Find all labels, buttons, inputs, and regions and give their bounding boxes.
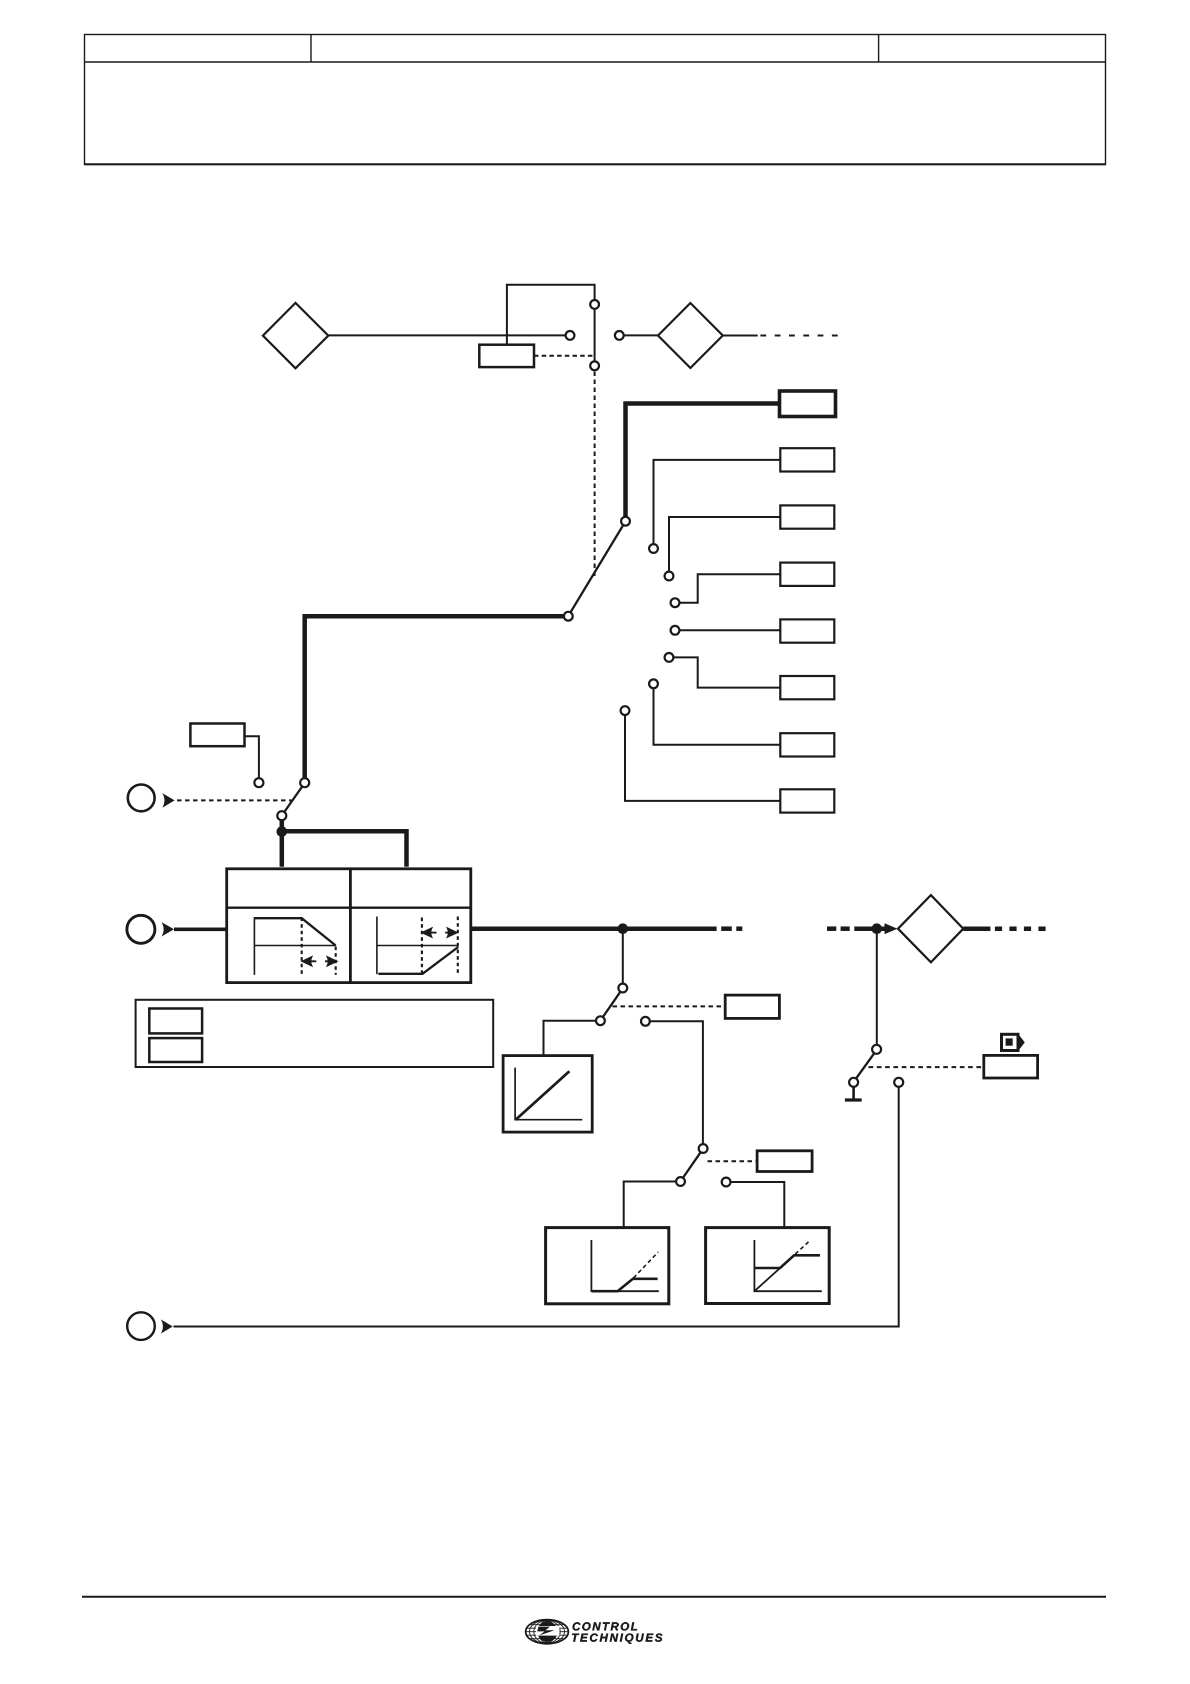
diamond D1 reference selector bbox=[263, 303, 328, 368]
parameter box P4 bbox=[757, 1151, 812, 1172]
accel graph dashed markers bbox=[422, 917, 458, 974]
dashed control line T1 to switch S2 blade bbox=[177, 799, 292, 801]
parameter box B2 bbox=[780, 448, 834, 471]
ramp box R2 dashed continuation bbox=[795, 1240, 810, 1254]
thick bus wire ramp block to junction J1 bbox=[471, 926, 717, 931]
terminal T3 bbox=[127, 1312, 155, 1340]
ramp block centre divider bbox=[349, 869, 352, 983]
wire contact c3 to box B3 bbox=[669, 517, 780, 572]
selector contact c8 bbox=[621, 706, 630, 715]
thick bus wire selector to left corner bbox=[305, 616, 564, 778]
arrowhead into D3 bbox=[885, 923, 898, 934]
wire contact c4 to box B4 bbox=[679, 574, 780, 603]
ramp box R2 thin diagonal bbox=[754, 1268, 780, 1291]
accel graph axes bbox=[377, 917, 458, 975]
switch S2 alternate contact bbox=[254, 778, 263, 787]
wire contact c8 to box B8 bbox=[625, 715, 780, 801]
logo text CONTROL TECHNIQUES bbox=[572, 1622, 662, 1644]
diamond D3 bbox=[898, 895, 963, 962]
junction J2 dot bbox=[872, 923, 883, 934]
switch S5 right contact bbox=[894, 1078, 903, 1087]
switch S4 blade bbox=[683, 1152, 701, 1178]
parameter box P5 bbox=[984, 1055, 1038, 1078]
switch S3 top contact bbox=[618, 984, 627, 993]
thick wire pivot to junction and into ramp block bbox=[282, 820, 407, 867]
selector contact c7 bbox=[649, 679, 658, 688]
wire J1 down to switch S3 bbox=[622, 929, 624, 984]
wire S3 left contact to linear box bbox=[544, 1021, 597, 1056]
ramp box R1 bbox=[546, 1228, 669, 1304]
switch S3 left contact bbox=[596, 1016, 605, 1025]
thick wire T2 into ramp block bbox=[174, 927, 227, 931]
selector contact c5 bbox=[671, 626, 680, 635]
switch S5 left contact bbox=[849, 1078, 858, 1087]
switch S4 top contact bbox=[699, 1144, 708, 1153]
linear law diagonal bbox=[516, 1071, 570, 1120]
parameter box P1 bbox=[479, 345, 534, 367]
footer rule bbox=[82, 1596, 1106, 1598]
accel graph curve bbox=[378, 947, 458, 974]
thick wire selector contact c1 to box B1 bbox=[626, 404, 780, 517]
selector pivot contact bbox=[564, 612, 573, 621]
decel graph curve bbox=[255, 918, 336, 945]
junction J1 dot bbox=[618, 923, 629, 934]
parameter box B5 bbox=[780, 619, 834, 642]
logo globe bbox=[526, 1620, 569, 1644]
wire contact c6 to box B6 bbox=[673, 657, 780, 687]
ramp box R1 dashed continuation bbox=[634, 1252, 659, 1278]
parameter box B4 bbox=[780, 563, 834, 586]
switch S5 blade bbox=[856, 1053, 874, 1078]
dashed link P1 to S1 bbox=[534, 355, 593, 357]
wire from D2 with dashed continuation bbox=[723, 335, 838, 337]
switch S5 top contact bbox=[872, 1045, 881, 1054]
switch S1 pole contact bbox=[566, 331, 575, 340]
wire contact c7 to box B7 bbox=[654, 688, 781, 745]
terminal T2 bbox=[127, 915, 155, 943]
wire J2 down to switch S5 bbox=[876, 929, 878, 1045]
switch S1 bottom contact bbox=[590, 361, 599, 370]
switch S2 pivot contact bbox=[277, 811, 286, 820]
selector blade to c1 bbox=[571, 525, 624, 612]
dashed link S4 to box P4 bbox=[708, 1160, 758, 1162]
selector contact c2 bbox=[649, 544, 658, 553]
wire contact c5 to box B5 bbox=[679, 629, 780, 631]
terminal T3 arrowhead bbox=[161, 1319, 173, 1333]
parameter box P3 bbox=[725, 995, 779, 1018]
switch S1 right contact bbox=[615, 331, 624, 340]
parameter box B8 bbox=[780, 789, 834, 812]
parameter box B7 bbox=[780, 733, 834, 756]
switch S3 blade bbox=[603, 992, 621, 1017]
wire D1 to switch S1 pole bbox=[328, 334, 565, 336]
parameter list outer box bbox=[136, 1000, 494, 1067]
wire S5 right contact down and left to terminal T3 bbox=[174, 1087, 899, 1327]
thick bus dashes after J1 bbox=[721, 926, 742, 931]
switch S4 left contact bbox=[676, 1177, 685, 1186]
wire contact c2 to box B2 bbox=[654, 460, 781, 544]
wire S1 to diamond D2 bbox=[624, 334, 658, 336]
decel graph axes bbox=[254, 917, 335, 975]
thick bus dashes left of junction J2 bbox=[827, 926, 850, 931]
selector contact c6 bbox=[665, 653, 674, 662]
thick wire from D3 and dashes bbox=[963, 926, 1048, 931]
selector contact c1 bbox=[621, 517, 630, 526]
ramp block header divider bbox=[227, 907, 471, 909]
ramp box R2 bbox=[706, 1228, 830, 1304]
parameter box B1 (bold) bbox=[780, 391, 836, 417]
ramp block outer box bbox=[227, 869, 471, 983]
ramp box R2 axes bbox=[754, 1240, 821, 1291]
linear law box bbox=[503, 1056, 592, 1133]
diamond D2 bbox=[658, 303, 723, 368]
selector contact c3 bbox=[665, 572, 674, 581]
destination icon above P5 bbox=[1002, 1034, 1025, 1050]
ramp box R1 curve bbox=[592, 1279, 658, 1291]
decel graph arrows bbox=[303, 957, 337, 965]
parameter box B3 bbox=[780, 505, 834, 528]
wire loop from box P1 over to contact C bbox=[507, 285, 595, 345]
selector contact c4 bbox=[671, 598, 680, 607]
dashed control line S1 down to selector blade bbox=[594, 372, 596, 578]
junction dot below S2 bbox=[277, 826, 288, 837]
parameter box B6 bbox=[780, 676, 834, 699]
dashed link S3 to box P3 bbox=[613, 1005, 726, 1007]
wire S4 left contact to ramp box R1 bbox=[624, 1182, 676, 1228]
wire P2 to alternate contact bbox=[245, 736, 259, 778]
switch S3 right contact bbox=[641, 1017, 650, 1026]
linear law axes bbox=[515, 1068, 582, 1120]
terminal T1 arrowhead bbox=[162, 793, 174, 808]
accel graph arrows bbox=[423, 929, 457, 937]
decel graph dashed markers bbox=[302, 918, 336, 975]
ground symbol under S5 bbox=[845, 1087, 862, 1100]
parameter list box A bbox=[149, 1009, 202, 1034]
dashed link S5 to box P5 bbox=[869, 1066, 984, 1068]
terminal T1 bbox=[128, 785, 155, 812]
switch S4 right contact bbox=[722, 1178, 731, 1187]
thick bus wire into diamond D3 bbox=[854, 926, 886, 931]
switch S2 thick-side contact bbox=[300, 778, 309, 787]
parameter box P2 bbox=[190, 724, 244, 747]
parameter list box B bbox=[149, 1038, 202, 1062]
ramp box R2 curve bbox=[754, 1255, 820, 1268]
wire S4 right contact to ramp box R2 bbox=[731, 1182, 785, 1228]
terminal T2 arrowhead bbox=[162, 922, 175, 936]
switch S1 top contact bbox=[590, 300, 599, 309]
header table frame bbox=[85, 35, 1106, 165]
wire S3 right contact down to switch S4 bbox=[650, 1021, 703, 1144]
switch S1 blade (closed vertical) bbox=[594, 309, 596, 361]
switch S2 blade bbox=[284, 787, 302, 813]
ramp box R1 axes bbox=[591, 1240, 658, 1291]
